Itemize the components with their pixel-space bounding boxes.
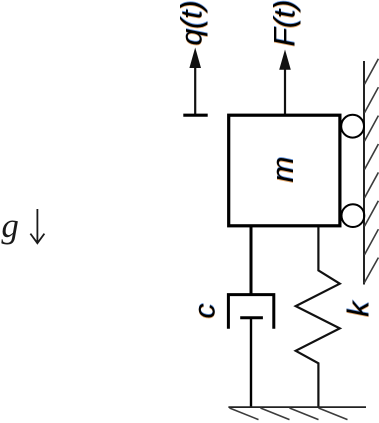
mass block m: [229, 115, 340, 226]
wall: [363, 61, 365, 285]
damper rod bottom: [250, 318, 252, 407]
roller bottom: [342, 204, 365, 227]
wall hatching: [364, 59, 378, 283]
svg-text:c: c: [188, 304, 221, 319]
svg-text:F(t): F(t): [269, 0, 302, 47]
gravity arrow: [30, 209, 44, 243]
svg-text:g: g: [1, 206, 19, 245]
label k: [341, 299, 376, 318]
q reference bar: [183, 114, 207, 117]
label q(t): [176, 0, 209, 46]
damper rod top: [250, 227, 253, 295]
label F(t): [269, 0, 302, 47]
label m: [265, 156, 300, 184]
damper cylinder: [228, 295, 273, 329]
ground: [228, 406, 366, 408]
damper piston: [240, 316, 263, 319]
arrow q(t): [189, 48, 201, 115]
svg-text:m: m: [265, 157, 300, 183]
arrow F(t): [279, 50, 291, 115]
spring k: [296, 227, 340, 407]
label c: [188, 303, 221, 320]
svg-text:k: k: [341, 300, 376, 317]
roller top: [341, 115, 364, 138]
ground hatching: [230, 408, 348, 420]
svg-text:q(t): q(t): [176, 1, 209, 46]
